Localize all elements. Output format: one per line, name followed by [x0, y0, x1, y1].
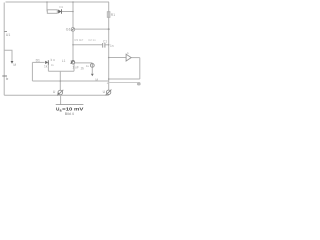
wire line B [32, 80, 108, 82]
wire left source bottom [59, 94, 61, 96]
svg-text:1n: 1n [110, 44, 114, 48]
capacitor C1 [103, 43, 105, 48]
diode D2 [45, 60, 48, 64]
wire left branch [4, 50, 12, 61]
svg-text:L1: L1 [62, 59, 66, 63]
svg-text:D1: D1 [59, 5, 63, 9]
wire bottom rail [4, 94, 109, 96]
wire D2 junction down [47, 62, 49, 71]
caption rule [56, 104, 84, 106]
wire column node B down [72, 2, 74, 28]
svg-text:C2 1n: C2 1n [88, 38, 96, 42]
svg-text:M: M [95, 78, 98, 82]
wire riser left [31, 62, 33, 81]
diode D1 [58, 9, 61, 13]
wire right rail [108, 2, 110, 90]
wire C1 branch [73, 44, 102, 46]
resistor R2 [47, 10, 57, 14]
ground left [11, 61, 14, 64]
wire base input [32, 61, 44, 63]
terminal blob [137, 83, 141, 86]
wire output terminal stub [109, 81, 141, 83]
wire amp output drop [139, 58, 141, 79]
wire C1 to right rail [106, 44, 109, 46]
svg-text:A: A [127, 51, 129, 55]
svg-text:U1: U1 [6, 33, 10, 37]
wire source U2 bottom [108, 93, 110, 96]
svg-text:Bild 4: Bild 4 [65, 112, 74, 116]
battery tick upper [4, 31, 7, 33]
ground mid [91, 74, 94, 77]
earpiece F [90, 63, 94, 68]
wire diode D1 to node B [62, 11, 73, 13]
op-amp A1 [126, 54, 131, 61]
wire feedback return [109, 78, 140, 80]
svg-text:R1: R1 [111, 13, 115, 17]
wire left rail [3, 3, 5, 96]
wire source stub [59, 71, 61, 90]
svg-text:G1: G1 [66, 28, 71, 32]
wire line A [48, 70, 74, 72]
svg-text:M: M [13, 63, 16, 67]
resistor R1 [107, 12, 110, 18]
svg-text:1k: 1k [44, 64, 48, 68]
svg-text:=10 mV: =10 mV [62, 106, 84, 111]
wire top rail [6, 1, 110, 3]
caption leader [60, 96, 62, 105]
svg-text:b: b [6, 77, 8, 81]
wire earpiece [75, 62, 93, 64]
wire amp output [131, 57, 140, 59]
svg-text:R3 4k7: R3 4k7 [75, 38, 84, 42]
transistor G1 [71, 28, 75, 32]
wire below G1 [72, 31, 74, 60]
wire earpiece stem [91, 67, 93, 73]
LED L1 [70, 61, 74, 64]
svg-text:k u: k u [51, 58, 55, 62]
labels layer [6, 5, 129, 116]
svg-text:D1: D1 [36, 59, 40, 63]
svg-text:2k: 2k [81, 66, 85, 70]
wire amp input [109, 57, 126, 59]
svg-text:1u: 1u [86, 64, 90, 68]
battery tick lower [2, 75, 7, 77]
source U2 [106, 90, 112, 96]
svg-text:1 uF: 1 uF [72, 65, 78, 69]
wire G1 to right rail [75, 28, 109, 30]
source U1 [57, 90, 63, 96]
svg-text:+: + [107, 82, 109, 86]
wire drop to R2 [46, 2, 48, 12]
junction dots [46, 1, 109, 82]
svg-text:C1: C1 [103, 40, 107, 44]
wire riser to LED [73, 64, 75, 72]
